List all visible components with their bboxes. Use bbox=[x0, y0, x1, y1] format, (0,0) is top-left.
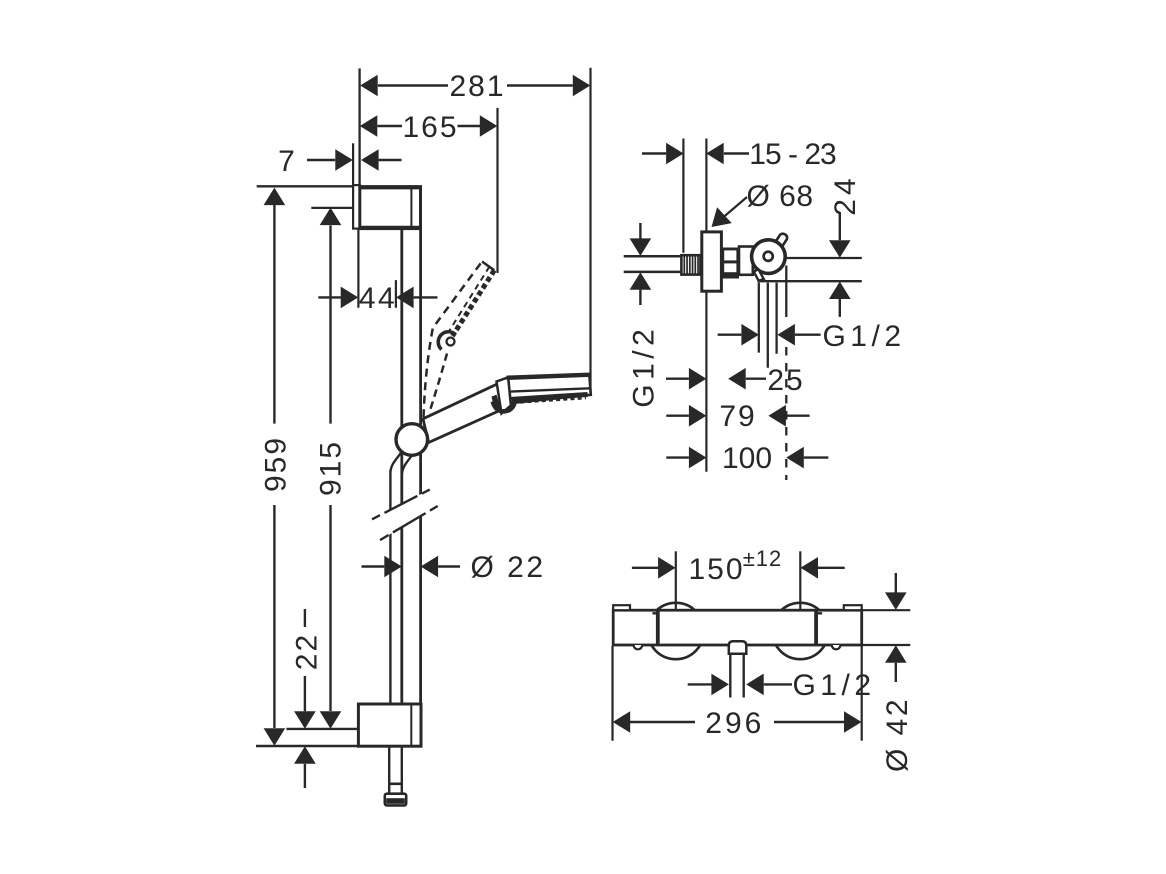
wall face extension line bbox=[682, 139, 684, 253]
hose outlet stub bbox=[729, 641, 747, 654]
body right shoulder bbox=[814, 610, 818, 645]
wall flange bbox=[702, 232, 722, 291]
hand shower neck bbox=[497, 377, 514, 414]
dim 281 extension line left bbox=[358, 68, 360, 185]
hose end plane dashed bbox=[785, 347, 787, 480]
dim 44 extension line left bbox=[357, 229, 359, 308]
dashed alternate handle left edge bbox=[424, 262, 483, 418]
valve centre bbox=[764, 252, 773, 261]
dim 7 bbox=[278, 145, 401, 178]
supply pipe bottom edge bbox=[624, 271, 682, 274]
head middle line bbox=[511, 388, 590, 391]
dim diameter 42 extension lower bbox=[862, 644, 911, 646]
svg-text:Ø 68: Ø 68 bbox=[746, 180, 813, 213]
ball joint bbox=[396, 424, 428, 456]
left end tab bbox=[613, 605, 630, 610]
outlet stub right edge bbox=[775, 283, 777, 354]
left check valve bump bbox=[634, 645, 643, 649]
threaded connector bbox=[721, 248, 739, 279]
break mark band bbox=[372, 490, 438, 540]
dim 7 extension line bbox=[352, 143, 354, 185]
hand shower head bbox=[508, 374, 591, 403]
right end tab bbox=[844, 605, 862, 610]
dim 22 reference line lower bbox=[256, 745, 358, 747]
dim 915 bbox=[315, 208, 348, 729]
svg-text:Ø 22: Ø 22 bbox=[470, 551, 545, 584]
outlet stub centre-left bbox=[767, 283, 769, 368]
flange centre extension line upper bbox=[705, 139, 707, 232]
body left shoulder bbox=[656, 610, 660, 645]
hose curve right bbox=[402, 454, 414, 475]
svg-text:22: 22 bbox=[290, 633, 323, 670]
left union nut circle bbox=[648, 603, 704, 659]
dim 22 reference line upper bbox=[286, 728, 358, 730]
thermostat body bbox=[613, 610, 862, 645]
conical hose nut bbox=[385, 794, 406, 806]
svg-text:24: 24 bbox=[829, 174, 862, 215]
dim diameter 42 bbox=[881, 573, 914, 772]
dashed alternate handle right edge bbox=[430, 354, 448, 413]
threaded nipple hatch bbox=[681, 255, 700, 274]
svg-text:296: 296 bbox=[705, 707, 764, 740]
dim G1/2 supply bbox=[628, 223, 661, 408]
supply pipe top edge bbox=[624, 255, 682, 258]
hose nut shoulder bbox=[388, 782, 403, 785]
dashed alternate spray face inner bbox=[449, 267, 490, 333]
svg-text:±12: ±12 bbox=[743, 546, 783, 571]
dashed alternate spray face band bbox=[453, 270, 495, 336]
svg-text:G1/2: G1/2 bbox=[822, 320, 905, 353]
bottom slide-bar bracket bbox=[358, 704, 421, 746]
outlet axis line 24 bbox=[785, 257, 862, 259]
dim 79 bbox=[666, 400, 809, 433]
dim 150 extension right bbox=[799, 551, 801, 611]
dim 150 extension left bbox=[675, 551, 677, 611]
hose below bracket right bbox=[401, 746, 403, 793]
dim 165 bbox=[360, 111, 498, 144]
flange centre extension line lower bbox=[705, 291, 707, 472]
top reference line bbox=[257, 185, 353, 187]
valve foot bbox=[754, 269, 764, 280]
dim 25 bbox=[666, 364, 805, 397]
right union nut circle bbox=[772, 603, 828, 659]
break mark upper line bbox=[372, 490, 430, 520]
alternate shower button outer bbox=[438, 332, 455, 350]
dim 959 bbox=[260, 188, 293, 746]
svg-text:281: 281 bbox=[449, 70, 505, 103]
union nut bbox=[739, 247, 757, 275]
hand shower handle bbox=[423, 380, 505, 442]
hose below bracket left bbox=[388, 746, 390, 793]
spray face band bbox=[512, 395, 588, 400]
svg-text:959: 959 bbox=[260, 436, 293, 492]
wall plate of top bracket bbox=[353, 185, 360, 229]
svg-text:Ø 42: Ø 42 bbox=[881, 697, 914, 772]
dim 296 extension right bbox=[861, 646, 863, 741]
break mark lower line bbox=[380, 506, 438, 540]
dim 100 bbox=[666, 442, 828, 475]
svg-text:150: 150 bbox=[688, 553, 744, 586]
dashed alternate head cap bbox=[482, 262, 494, 271]
svg-text:79: 79 bbox=[719, 400, 756, 433]
left shoulder tick bbox=[652, 612, 657, 614]
dim 22 bbox=[290, 609, 323, 788]
alternate shower button inner bbox=[447, 338, 455, 346]
right check valve bump bbox=[832, 645, 841, 649]
dim 44 bbox=[318, 282, 437, 315]
dim 281 extension line right bbox=[589, 68, 591, 394]
dim G1/2 outlet bbox=[718, 320, 906, 353]
dim 165 extension line bbox=[496, 108, 498, 273]
pivot ear bbox=[775, 234, 788, 248]
handle hook blob bbox=[492, 395, 501, 410]
dim 281 bbox=[360, 70, 590, 103]
dim 44 extension line right bbox=[395, 280, 397, 308]
hose stub right line bbox=[743, 654, 745, 698]
dim diameter 22 bbox=[362, 551, 546, 584]
shower hose vertical bbox=[389, 470, 391, 704]
neck pivot cap bbox=[493, 402, 515, 412]
hose stub left line bbox=[729, 654, 731, 698]
svg-text:G1/2: G1/2 bbox=[628, 325, 661, 408]
dim G1/2 thermostat bbox=[688, 669, 876, 702]
spray nozzle dots bbox=[513, 398, 586, 403]
valve body bbox=[752, 240, 786, 274]
dim 296 bbox=[613, 707, 862, 740]
hose curve left bbox=[391, 451, 403, 472]
right shoulder tick bbox=[816, 612, 822, 614]
top slide-bar bracket bbox=[360, 187, 421, 229]
slide bar left edge bbox=[400, 229, 403, 704]
dim 15-23 bbox=[642, 138, 836, 171]
svg-text:915: 915 bbox=[315, 440, 348, 496]
label diameter 68 bbox=[712, 180, 814, 227]
svg-text:165: 165 bbox=[402, 111, 458, 144]
hand shower head top edge bbox=[507, 375, 591, 378]
outlet stub left edge bbox=[758, 283, 760, 353]
slide bar right edge bbox=[419, 229, 422, 704]
svg-text:7: 7 bbox=[278, 145, 297, 178]
hose end plane solid bbox=[785, 266, 787, 318]
foot base line bbox=[758, 280, 862, 282]
dim 24 bbox=[829, 174, 862, 317]
svg-text:100: 100 bbox=[722, 442, 772, 475]
svg-text:15 - 23: 15 - 23 bbox=[749, 138, 836, 171]
svg-text:G1/2: G1/2 bbox=[792, 669, 875, 702]
dim 150 plus-minus 12 bbox=[632, 546, 845, 586]
svg-text:25: 25 bbox=[767, 364, 804, 397]
dim 296 extension left bbox=[611, 646, 613, 741]
svg-text:44: 44 bbox=[359, 282, 397, 315]
dim diameter 42 extension upper bbox=[862, 609, 911, 611]
dim 915 extension line bbox=[311, 207, 353, 209]
